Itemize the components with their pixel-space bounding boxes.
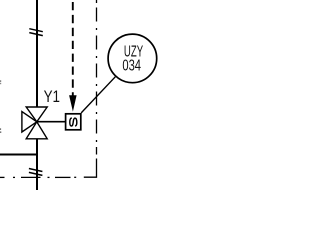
svg-text:Y1: Y1 <box>44 88 60 107</box>
svg-text:034: 034 <box>122 55 141 74</box>
